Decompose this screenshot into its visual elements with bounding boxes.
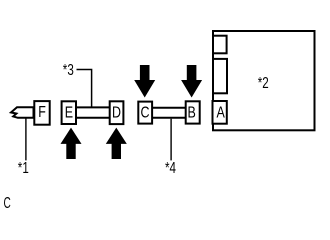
- leader line *1: [25, 119, 27, 161]
- wire plug symbol (*1): [11, 107, 34, 118]
- down arrow above C: [134, 65, 155, 98]
- svg-text:B: B: [188, 104, 196, 122]
- svg-text:*2: *2: [258, 74, 269, 91]
- connector F: [34, 101, 49, 125]
- leader *3: [77, 70, 92, 108]
- connector A: [213, 101, 227, 124]
- connector E: [62, 101, 76, 124]
- svg-text:E: E: [65, 104, 73, 122]
- svg-text:D: D: [112, 104, 121, 122]
- connector B: [186, 101, 200, 123]
- svg-text:F: F: [38, 104, 46, 122]
- svg-text:*1: *1: [18, 159, 29, 176]
- up arrow below E: [61, 128, 82, 159]
- tab 1 on junction box: [213, 36, 227, 54]
- down arrow above B: [181, 65, 202, 98]
- svg-text:C: C: [140, 104, 149, 122]
- up arrow below D: [106, 128, 127, 159]
- svg-text:*4: *4: [165, 159, 176, 176]
- bar between C and B: [152, 108, 186, 118]
- bar between E and D: [76, 107, 110, 117]
- connector C: [138, 102, 152, 124]
- connector D: [110, 101, 124, 124]
- tab 2 on junction box: [213, 59, 227, 93]
- junction box *2: [213, 31, 315, 130]
- svg-text:C: C: [4, 194, 11, 210]
- svg-text:A: A: [216, 104, 225, 122]
- svg-text:*3: *3: [63, 61, 74, 78]
- leader line *4: [170, 119, 172, 161]
